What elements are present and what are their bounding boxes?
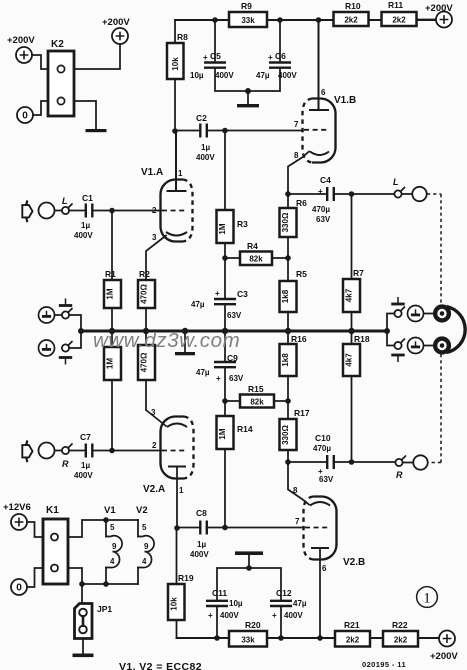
svg-text:R17: R17	[294, 408, 310, 418]
svg-text:V1.A: V1.A	[141, 167, 163, 178]
svg-text:400V: 400V	[215, 71, 234, 80]
svg-text:470µ: 470µ	[312, 205, 330, 214]
svg-text:R7: R7	[353, 268, 364, 278]
svg-text:R19: R19	[178, 573, 194, 583]
svg-text:47µ: 47µ	[256, 71, 270, 80]
svg-text:020195 - 11: 020195 - 11	[362, 660, 406, 669]
svg-text:63V: 63V	[229, 374, 244, 383]
svg-text:V2: V2	[136, 505, 148, 516]
svg-text:V1.B: V1.B	[334, 95, 356, 106]
svg-text:6: 6	[321, 88, 326, 97]
svg-text:JP1: JP1	[97, 604, 112, 614]
svg-text:1: 1	[179, 486, 184, 495]
svg-text:R6: R6	[296, 198, 307, 208]
svg-text:63V: 63V	[227, 311, 242, 320]
svg-text:R20: R20	[245, 620, 261, 630]
svg-text:V1, V2 = ECC82: V1, V2 = ECC82	[119, 661, 202, 670]
svg-text:63V: 63V	[319, 475, 334, 484]
svg-text:R16: R16	[291, 334, 307, 344]
svg-text:400V: 400V	[278, 71, 297, 80]
svg-text:R: R	[62, 459, 69, 469]
svg-text:R2: R2	[139, 269, 150, 279]
svg-text:+12V6: +12V6	[3, 502, 31, 513]
svg-text:330Ω: 330Ω	[281, 425, 290, 445]
svg-text:6: 6	[322, 564, 327, 573]
svg-text:10k: 10k	[170, 597, 179, 611]
svg-text:R21: R21	[344, 620, 360, 630]
svg-text:1µ: 1µ	[81, 221, 90, 230]
svg-text:K2: K2	[51, 39, 64, 50]
svg-text:82k: 82k	[249, 255, 263, 264]
svg-text:+: +	[216, 374, 221, 383]
svg-text:1k8: 1k8	[281, 353, 290, 367]
svg-text:400V: 400V	[74, 231, 93, 240]
svg-text:R11: R11	[388, 0, 403, 10]
svg-text:+: +	[203, 53, 208, 62]
svg-text:7: 7	[295, 517, 300, 526]
svg-text:+: +	[318, 187, 323, 196]
svg-text:R14: R14	[237, 424, 253, 434]
svg-text:V1: V1	[104, 505, 116, 516]
svg-text:63V: 63V	[316, 215, 331, 224]
svg-text:47µ: 47µ	[293, 599, 307, 608]
svg-text:10µ: 10µ	[190, 71, 204, 80]
svg-text:5: 5	[110, 523, 115, 532]
svg-text:330Ω: 330Ω	[281, 212, 290, 232]
svg-text:+200V: +200V	[7, 35, 35, 46]
svg-text:+200V: +200V	[425, 3, 453, 14]
svg-text:R10: R10	[345, 1, 361, 11]
svg-text:R8: R8	[177, 32, 188, 42]
svg-text:C6: C6	[275, 51, 286, 61]
svg-text:R1: R1	[105, 269, 116, 279]
svg-text:9: 9	[144, 542, 149, 551]
svg-text:R4: R4	[247, 241, 258, 251]
svg-text:R3: R3	[237, 219, 248, 229]
svg-text:C7: C7	[80, 432, 91, 442]
svg-text:400V: 400V	[74, 471, 93, 480]
svg-text:L: L	[62, 196, 68, 206]
svg-text:1µ: 1µ	[81, 461, 90, 470]
svg-text:8: 8	[294, 151, 299, 160]
svg-text:3: 3	[152, 233, 157, 242]
svg-text:+: +	[272, 611, 277, 620]
svg-text:5: 5	[142, 523, 147, 532]
svg-text:C11: C11	[212, 588, 227, 598]
svg-text:1: 1	[178, 169, 183, 178]
svg-text:3: 3	[151, 408, 156, 417]
svg-text:C2: C2	[196, 113, 207, 123]
svg-text:R5: R5	[296, 269, 307, 279]
svg-text:2k2: 2k2	[344, 16, 358, 25]
svg-text:C9: C9	[227, 353, 238, 363]
svg-text:470Ω: 470Ω	[140, 352, 149, 372]
svg-text:1M: 1M	[218, 428, 227, 439]
svg-text:1k8: 1k8	[281, 289, 290, 303]
svg-text:9: 9	[112, 542, 117, 551]
svg-text:2k2: 2k2	[394, 636, 408, 645]
svg-text:+200V: +200V	[430, 651, 458, 662]
svg-text:R15: R15	[248, 384, 264, 394]
svg-text:R: R	[396, 470, 403, 480]
svg-text:1M: 1M	[106, 358, 115, 369]
svg-text:C12: C12	[276, 588, 292, 598]
svg-text:C3: C3	[237, 289, 248, 299]
svg-text:R9: R9	[241, 1, 252, 11]
svg-text:47µ: 47µ	[196, 368, 210, 377]
svg-text:470Ω: 470Ω	[140, 284, 149, 304]
svg-text:C5: C5	[210, 51, 221, 61]
svg-text:8: 8	[293, 486, 298, 495]
svg-text:400V: 400V	[220, 611, 239, 620]
svg-text:82k: 82k	[250, 398, 264, 407]
svg-text:C10: C10	[315, 433, 331, 443]
svg-text:33k: 33k	[241, 16, 255, 25]
svg-text:www.dz3w.com: www.dz3w.com	[93, 329, 240, 352]
svg-text:R22: R22	[392, 620, 408, 630]
svg-text:C4: C4	[320, 175, 331, 185]
svg-text:4: 4	[142, 557, 147, 566]
svg-text:4k7: 4k7	[345, 288, 354, 302]
svg-text:33k: 33k	[241, 636, 255, 645]
svg-text:4: 4	[110, 557, 115, 566]
svg-text:L: L	[393, 177, 399, 187]
svg-text:C8: C8	[196, 508, 207, 518]
svg-text:2k2: 2k2	[392, 16, 406, 25]
svg-text:V2.A: V2.A	[143, 484, 165, 495]
svg-text:2: 2	[152, 206, 157, 215]
svg-text:+200V: +200V	[102, 17, 130, 28]
svg-text:4k7: 4k7	[345, 353, 354, 367]
svg-text:1M: 1M	[218, 223, 227, 234]
svg-text:C1: C1	[82, 193, 93, 203]
svg-text:2k2: 2k2	[346, 636, 360, 645]
svg-text:47µ: 47µ	[191, 300, 205, 309]
svg-text:10k: 10k	[171, 57, 180, 71]
svg-text:1µ: 1µ	[201, 143, 210, 152]
svg-text:K1: K1	[46, 505, 59, 516]
svg-text:400V: 400V	[190, 550, 209, 559]
svg-text:R18: R18	[354, 334, 370, 344]
svg-text:400V: 400V	[284, 611, 303, 620]
svg-text:1: 1	[423, 591, 431, 607]
svg-text:7: 7	[294, 120, 299, 129]
svg-text:+: +	[215, 289, 220, 298]
svg-text:10µ: 10µ	[229, 599, 243, 608]
svg-text:470µ: 470µ	[313, 444, 331, 453]
svg-text:400V: 400V	[196, 153, 215, 162]
svg-text:1M: 1M	[106, 288, 115, 299]
svg-text:2: 2	[152, 441, 157, 450]
svg-text:1µ: 1µ	[197, 540, 206, 549]
svg-text:+: +	[208, 611, 213, 620]
svg-text:+: +	[268, 53, 273, 62]
svg-text:V2.B: V2.B	[343, 557, 365, 568]
